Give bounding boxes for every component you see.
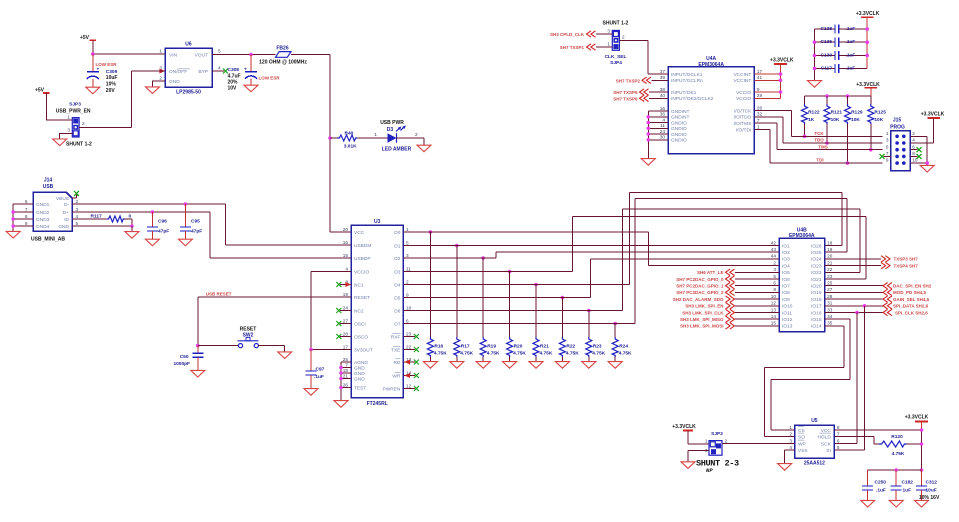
node R40 branch on USB power rail	[328, 136, 332, 140]
wire SJP3 pin 3 to ground	[60, 133, 73, 139]
ground below U5 VSS	[778, 464, 792, 471]
CPLD U4B EPM3064A	[779, 238, 825, 332]
svg-text:INPUT/OE1: INPUT/OE1	[671, 90, 697, 96]
svg-text:47pF: 47pF	[158, 229, 169, 235]
svg-text:C250: C250	[875, 479, 887, 485]
svg-text:GND: GND	[58, 224, 69, 230]
svg-text:I/O/TMS: I/O/TMS	[733, 121, 751, 127]
svg-text:I/O/TDI: I/O/TDI	[736, 127, 751, 133]
svg-text:4.75K: 4.75K	[460, 351, 473, 357]
no-connect X at U3 OSCO	[340, 336, 351, 338]
svg-text:17: 17	[757, 69, 763, 74]
wire U4A TCK to J15 pin 1	[754, 111, 882, 137]
svg-text:OSCO: OSCO	[354, 334, 368, 340]
svg-text:20: 20	[343, 227, 349, 232]
svg-text:USB: USB	[43, 184, 54, 190]
node D6/R23 junction	[587, 309, 591, 313]
svg-text:120 OHM @ 100MHz: 120 OHM @ 100MHz	[259, 59, 307, 65]
capacitor C138 .1uF	[815, 28, 836, 30]
svg-text:RXF: RXF	[391, 334, 401, 340]
junction dots U4A ground rail	[647, 115, 651, 119]
svg-text:+3.3VCLK: +3.3VCLK	[921, 112, 945, 118]
wire CPLD_CLK to SJP4 pin 3	[596, 33, 612, 35]
svg-text:26: 26	[343, 382, 349, 387]
resistor R117 0 ohm on ID line	[72, 218, 107, 220]
J15 pin 4 wire to +3.3VCLK	[910, 118, 933, 143]
wire D3 cathode to ground	[397, 138, 425, 145]
svg-text:VCCINT: VCCINT	[733, 72, 751, 78]
wire U4B IO15 to U5 CS	[771, 319, 850, 430]
ground below D3	[417, 145, 431, 152]
svg-text:5: 5	[837, 445, 840, 450]
svg-text:10K: 10K	[831, 117, 840, 123]
svg-text:TMS: TMS	[818, 144, 828, 149]
svg-text:1K: 1K	[808, 117, 815, 123]
svg-text:NC2: NC2	[354, 308, 364, 314]
wire TXSP5 to U4A OE1	[649, 91, 668, 93]
ground below C96	[145, 239, 159, 246]
svg-text:IO24: IO24	[811, 257, 822, 263]
svg-text:IO22: IO22	[811, 270, 822, 276]
ground below J14	[6, 231, 20, 238]
svg-text:26: 26	[757, 105, 763, 110]
svg-text:GND1: GND1	[36, 202, 50, 208]
svg-text:47pF: 47pF	[191, 229, 202, 235]
svg-text:LOW ESR: LOW ESR	[259, 75, 281, 80]
ground below J15	[920, 165, 934, 172]
wire +3.3VCLK to SJP2 pin 1	[688, 431, 709, 445]
node 3V3OUT/C97 junction	[309, 348, 313, 352]
svg-text:IO9: IO9	[782, 297, 790, 303]
svg-text:+5V: +5V	[35, 88, 45, 94]
svg-text:19: 19	[827, 247, 833, 252]
ferrite bead FB26 120 OHM @ 100MHz	[276, 52, 292, 58]
resistor R21 4.75K pulldown on D4	[535, 285, 537, 338]
svg-text:6: 6	[912, 144, 915, 149]
svg-text:SCK: SCK	[821, 441, 832, 447]
svg-text:U3: U3	[374, 219, 381, 225]
svg-text:TDO: TDO	[814, 138, 824, 143]
net label TXSP3 SH7 at U4B IO24	[825, 258, 882, 260]
svg-text:SJP2: SJP2	[711, 431, 723, 437]
svg-text:VCCIO: VCCIO	[736, 90, 751, 96]
svg-text:8: 8	[25, 214, 28, 219]
svg-text:D7: D7	[394, 321, 400, 327]
svg-text:R125: R125	[874, 109, 886, 115]
wire U3 analog/digital ground rail	[341, 362, 351, 401]
ground below C50	[191, 370, 205, 377]
capacitor C135 .1uF	[815, 41, 836, 43]
svg-text:USB RESET: USB RESET	[206, 291, 232, 296]
capacitor C96 47pF	[151, 212, 153, 227]
svg-text:IO18: IO18	[811, 297, 822, 303]
svg-text:1: 1	[789, 425, 792, 430]
svg-text:IO4: IO4	[782, 263, 790, 269]
wire TXSP2 to U4A GCLRn	[652, 79, 669, 81]
svg-text:4.75K: 4.75K	[592, 351, 605, 357]
node U5 VCC junction	[920, 428, 924, 432]
svg-text:SHUNT 2-3: SHUNT 2-3	[696, 459, 739, 469]
net label TXSP4 SH7 at U4B IO23	[825, 265, 882, 267]
no-connect X at U3 TXE	[403, 349, 415, 351]
svg-text:SHUNT 1-2: SHUNT 1-2	[603, 21, 629, 27]
wire U6 VOUT to FB26	[212, 54, 276, 56]
cap stack left ground rail	[814, 29, 816, 81]
wire U3 VCCIO to 3V3OUT rail	[311, 272, 351, 350]
svg-text:BYP: BYP	[198, 69, 208, 75]
svg-text:PWREN: PWREN	[383, 386, 401, 392]
svg-text:IO12: IO12	[782, 317, 793, 323]
node SPI_CLK junction	[855, 311, 859, 315]
node J15 ground junction	[925, 161, 929, 165]
wire U4A VCC rail	[754, 64, 780, 98]
svg-text:GND: GND	[354, 365, 365, 371]
junction dots resistor top rail	[825, 94, 829, 98]
svg-text:TCK: TCK	[814, 131, 824, 136]
svg-text:OSCI: OSCI	[354, 321, 366, 327]
J15 pin 7 no-connect stub	[884, 155, 891, 157]
svg-text:IO23: IO23	[811, 263, 822, 269]
push button SW2 RESET	[238, 344, 242, 348]
capacitor C308 4.7uF low ESR	[250, 55, 252, 72]
wire R125 bottom to TMS line	[870, 124, 872, 150]
svg-text:21: 21	[343, 373, 349, 378]
svg-text:6: 6	[25, 199, 28, 204]
resistor R125 10K	[870, 96, 872, 104]
svg-text:SH7 PC2DAC_GPIO_2: SH7 PC2DAC_GPIO_2	[676, 290, 724, 295]
capacitor C50 1000pF	[197, 346, 199, 354]
node +5V/C309 junction	[91, 52, 95, 56]
wire JTAG resistor top rail	[870, 88, 872, 96]
svg-text:1: 1	[705, 439, 708, 444]
svg-text:R23: R23	[593, 343, 602, 349]
resistor R120 4.75K	[879, 441, 907, 447]
svg-text:GNDINT: GNDINT	[671, 115, 689, 121]
svg-text:16: 16	[660, 106, 666, 111]
svg-text:28: 28	[343, 331, 349, 336]
capacitor C250 .1uF	[867, 470, 869, 486]
voltage regulator U6 LP2985-50	[165, 48, 212, 87]
svg-text:D6: D6	[394, 308, 400, 314]
svg-text:27: 27	[827, 287, 833, 292]
USB connector J14 USB_MINI_AB	[33, 192, 72, 231]
svg-text:C50: C50	[180, 354, 189, 360]
wire SJP2 pin 2 to U5 WP	[722, 443, 795, 445]
svg-text:D0: D0	[394, 230, 400, 236]
svg-text:4.75K: 4.75K	[487, 351, 500, 357]
svg-text:SPI_DATA SH2,6: SPI_DATA SH2,6	[893, 304, 929, 309]
ground below R17	[450, 362, 464, 369]
no-connect X at U3 NC1	[340, 284, 351, 286]
wire USB RESET from U3 RESET pin	[198, 297, 351, 346]
svg-text:D+: D+	[63, 210, 69, 216]
svg-text:43: 43	[771, 247, 777, 252]
svg-text:TXE: TXE	[391, 347, 400, 353]
ground below SJP2	[681, 462, 695, 469]
resistor R20 4.75K pulldown on D3	[509, 272, 511, 338]
wire U4B IO14 to U5 SO	[765, 326, 844, 437]
junction dots U3 ground rail	[339, 366, 343, 370]
svg-text:DAC_SPI_EN SH2: DAC_SPI_EN SH2	[893, 284, 932, 289]
svg-text:IO19: IO19	[811, 290, 822, 296]
svg-text:.1uF: .1uF	[314, 374, 324, 380]
ground below U4A	[641, 159, 655, 166]
svg-text:J15: J15	[893, 118, 902, 124]
svg-text:2: 2	[76, 199, 79, 204]
svg-text:5: 5	[886, 144, 889, 149]
svg-text:VCCIO: VCCIO	[354, 269, 369, 275]
svg-text:39: 39	[660, 75, 666, 80]
wire TXSP6 to U4A OE2	[649, 97, 668, 99]
svg-text:+5V: +5V	[80, 35, 90, 41]
svg-text:+: +	[97, 67, 100, 72]
ground below C250	[861, 500, 875, 507]
svg-text:SW2: SW2	[243, 333, 254, 339]
J15 pin 8 no-connect	[910, 155, 917, 157]
svg-text:4: 4	[76, 214, 79, 219]
svg-text:MOD_PD SH4,5: MOD_PD SH4,5	[893, 290, 927, 295]
wire D3 to U4B IO21	[403, 216, 866, 279]
svg-text:GND2: GND2	[36, 210, 50, 216]
wire USB D- to U3 USBDM	[72, 204, 351, 245]
svg-text:9: 9	[406, 292, 409, 297]
svg-text:R17: R17	[461, 343, 470, 349]
svg-text:2: 2	[773, 260, 776, 265]
svg-text:R121: R121	[831, 109, 843, 115]
svg-text:ON/OFF: ON/OFF	[169, 69, 187, 75]
ground below cap stack	[808, 81, 822, 88]
capacitor C182 1uF	[895, 470, 897, 486]
svg-text:IO1: IO1	[782, 243, 790, 249]
svg-text:D3: D3	[394, 269, 400, 275]
svg-text:6: 6	[773, 281, 776, 286]
svg-text:TXSP4 SH7: TXSP4 SH7	[894, 263, 919, 268]
wire FB26 to USB-power vertical rail	[291, 55, 351, 233]
no-connect X at U3 RXF	[403, 336, 415, 338]
ground below R20	[503, 362, 517, 369]
svg-text:37: 37	[660, 69, 666, 74]
svg-text:SHUNT 1-2: SHUNT 1-2	[66, 142, 92, 148]
no-connect X at U3 NC2	[340, 310, 351, 312]
wire U5 VSS to ground	[785, 450, 795, 464]
svg-text:30: 30	[660, 135, 666, 140]
svg-text:3.01K: 3.01K	[344, 143, 357, 149]
ground below R16	[423, 362, 437, 369]
resistor R129 10K	[847, 96, 849, 104]
svg-text:TXSP3 SH7: TXSP3 SH7	[894, 257, 919, 262]
wire R122 bottom to TCK line	[804, 124, 806, 136]
svg-text:4.75K: 4.75K	[566, 351, 579, 357]
svg-text:2: 2	[789, 431, 792, 436]
svg-text:+3.3VCLK: +3.3VCLK	[856, 82, 880, 88]
power symbol +3.3VCLK at U5 VCC	[915, 421, 928, 423]
svg-text:USB_PWR_EN: USB_PWR_EN	[56, 108, 91, 114]
svg-text:11: 11	[406, 266, 411, 271]
no-connect X at U3 PWREN	[403, 388, 415, 390]
ground below U3	[334, 401, 348, 408]
svg-text:25AA512: 25AA512	[804, 460, 825, 466]
svg-text:22: 22	[406, 344, 412, 349]
svg-text:7: 7	[757, 118, 760, 123]
svg-text:3: 3	[886, 138, 889, 143]
ground below R117/GND node	[131, 226, 133, 232]
svg-text:TDI: TDI	[816, 157, 823, 162]
svg-text:SH6 ATT_LE: SH6 ATT_LE	[697, 270, 724, 275]
svg-text:C182: C182	[902, 479, 914, 485]
svg-text:4.75K: 4.75K	[513, 351, 526, 357]
svg-text:LP2985-50: LP2985-50	[176, 90, 201, 96]
wire +5V to VIN and C309 junction	[93, 40, 165, 54]
solder jumper SJP3 USB_PWR_EN	[72, 118, 79, 137]
svg-text:SPI_CLK SH2,6: SPI_CLK SH2,6	[895, 310, 928, 315]
svg-text:1uF: 1uF	[903, 487, 912, 493]
svg-text:IO13: IO13	[782, 324, 793, 330]
wire SW2 to ground	[258, 346, 284, 352]
svg-text:4: 4	[789, 445, 792, 450]
svg-text:.1uF: .1uF	[846, 66, 856, 72]
svg-text:R16: R16	[434, 343, 443, 349]
power symbol +3.3VCLK at J15 pin 4	[927, 117, 940, 119]
svg-text:GND4: GND4	[36, 224, 50, 230]
svg-text:GNDIO: GNDIO	[671, 132, 687, 138]
svg-text:SJP3: SJP3	[69, 102, 81, 108]
J15 pin 10 wire to ground	[910, 162, 927, 164]
svg-text:3: 3	[773, 267, 776, 272]
junction dots cap stack rails	[813, 40, 817, 44]
svg-text:9: 9	[886, 158, 889, 163]
ground right of SW2	[278, 352, 292, 359]
svg-text:D3: D3	[387, 127, 394, 133]
svg-text:R117: R117	[91, 214, 103, 220]
svg-text:IO2: IO2	[782, 250, 790, 256]
svg-text:INPUT/GCLK1: INPUT/GCLK1	[671, 72, 703, 78]
svg-text:4: 4	[662, 117, 665, 122]
node D7/R24 junction	[613, 322, 617, 326]
svg-text:EPM3064A: EPM3064A	[698, 62, 724, 68]
svg-text:C135: C135	[821, 39, 833, 45]
cap stack right +3.3VCLK rail	[866, 17, 868, 68]
svg-text:C96: C96	[158, 219, 167, 225]
node C96 junction on D+	[151, 210, 155, 214]
svg-text:HOLD: HOLD	[817, 434, 831, 440]
svg-text:NP: NP	[706, 467, 713, 474]
svg-text:J14: J14	[44, 178, 53, 184]
svg-text:4.75K: 4.75K	[619, 351, 632, 357]
wire cap top rail	[868, 469, 922, 471]
svg-text:CLK_SEL: CLK_SEL	[605, 54, 627, 60]
svg-text:GNDINT: GNDINT	[671, 109, 689, 115]
svg-text:C117: C117	[821, 66, 833, 72]
wire SJP3 pin 2 to U6 ON/OFF	[79, 71, 165, 127]
svg-text:VCCINT: VCCINT	[733, 78, 751, 84]
capacitor C95 47pF	[184, 204, 186, 227]
svg-text:3: 3	[76, 207, 79, 212]
svg-text:1000pF: 1000pF	[173, 361, 190, 367]
U3 WR pin arrow and no-connect	[403, 375, 415, 377]
svg-text:8: 8	[912, 151, 915, 156]
svg-text:9: 9	[757, 87, 760, 92]
svg-text:17: 17	[343, 344, 349, 349]
node C95 junction on D-	[184, 202, 188, 206]
resistor R122 1K	[804, 96, 806, 104]
svg-text:4.75K: 4.75K	[540, 351, 553, 357]
IC U3 FT245RL	[351, 225, 403, 397]
svg-text:VCC: VCC	[354, 230, 365, 236]
svg-text:10%: 10%	[106, 82, 117, 88]
svg-text:35: 35	[827, 321, 833, 326]
LED D3 USB PWR amber	[388, 133, 397, 143]
power symbol +3.3VCLK at U4A VCC pins	[774, 63, 787, 65]
svg-text:28: 28	[827, 294, 833, 299]
svg-text:SH3 LMK_SPI_EN: SH3 LMK_SPI_EN	[685, 304, 723, 309]
svg-text:SH7 PC2DAC_GPIO_0: SH7 PC2DAC_GPIO_0	[676, 277, 724, 282]
node R117/GND junction	[130, 224, 134, 228]
net label SPI_DATA SH2,6 at U4B IO17	[825, 305, 884, 307]
svg-text:FT245RL: FT245RL	[367, 401, 388, 407]
svg-text:3: 3	[789, 438, 792, 443]
svg-text:R22: R22	[566, 343, 575, 349]
wire D5 to U4B IO3	[403, 259, 779, 298]
svg-text:C308: C308	[228, 67, 240, 73]
svg-text:SH3 LMK_SPI_MOSI: SH3 LMK_SPI_MOSI	[680, 324, 724, 329]
svg-text:16: 16	[343, 240, 349, 245]
svg-text:IO15: IO15	[811, 317, 822, 323]
EEPROM U5 25AA512	[795, 425, 835, 458]
svg-text:34: 34	[827, 314, 833, 319]
svg-text:4: 4	[218, 65, 221, 70]
svg-text:4: 4	[345, 266, 348, 271]
svg-text:21: 21	[827, 260, 833, 265]
wire to reset switch SW2	[198, 345, 239, 347]
no-connect VBUS pin 1	[72, 195, 77, 198]
resistor R24 4.75K pulldown on D7	[614, 324, 616, 338]
capacitor C309 10uF low ESR	[92, 54, 94, 72]
node D4/R21 junction	[534, 283, 538, 287]
CPLD U4A EPM3064A	[668, 67, 754, 154]
svg-text:R129: R129	[851, 109, 863, 115]
svg-text:PROG: PROG	[890, 125, 905, 131]
node SPI_DATA junction	[863, 304, 867, 308]
wire SPI_DATA down to U5 SI	[834, 306, 864, 450]
svg-text:INPUT/OE2/GCLK2: INPUT/OE2/GCLK2	[671, 96, 714, 102]
capacitor C97 .1uF	[310, 350, 312, 372]
ground below C182	[889, 500, 903, 507]
svg-text:2: 2	[406, 279, 409, 284]
node D0/R16 junction	[429, 230, 433, 234]
wire D4 to U4B IO26	[403, 192, 841, 284]
svg-text:SH7 TXSP2: SH7 TXSP2	[616, 78, 641, 83]
svg-text:10V: 10V	[228, 85, 238, 91]
svg-text:12: 12	[771, 301, 777, 306]
power symbol +3.3VCLK at cap stack	[861, 16, 874, 18]
svg-text:10uF: 10uF	[926, 487, 937, 493]
svg-text:44: 44	[771, 254, 777, 259]
svg-text:C97: C97	[316, 366, 325, 372]
svg-text:22: 22	[827, 267, 833, 272]
svg-text:25: 25	[343, 357, 349, 362]
svg-text:8: 8	[837, 425, 840, 430]
svg-text:7: 7	[886, 151, 889, 156]
ground below C312	[915, 500, 929, 507]
svg-text:AGND: AGND	[354, 360, 368, 366]
node cap rail junction	[920, 468, 924, 472]
svg-text:1: 1	[374, 132, 377, 137]
no-connect X at U3 OSCI	[340, 323, 351, 325]
svg-text:TEST: TEST	[354, 385, 366, 391]
svg-text:20: 20	[827, 254, 833, 259]
svg-text:7: 7	[25, 207, 28, 212]
svg-text:IO25: IO25	[811, 250, 822, 256]
